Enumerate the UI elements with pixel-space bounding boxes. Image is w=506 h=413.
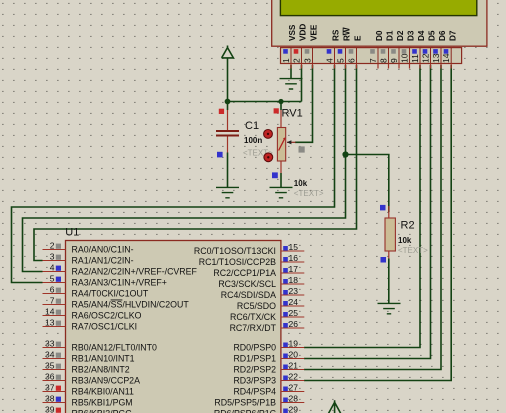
svg-text:5: 5 xyxy=(50,274,55,284)
svg-text:RD0/PSP0: RD0/PSP0 xyxy=(233,343,276,353)
capacitor C1 labels xyxy=(243,120,273,158)
wire RW net: node to R2 top xyxy=(346,155,389,213)
LCD pin state squares xyxy=(283,49,448,54)
svg-text:27: 27 xyxy=(289,383,299,393)
svg-text:RB2/AN8/INT2: RB2/AN8/INT2 xyxy=(72,365,130,375)
power symbol bottom (cut off) xyxy=(328,400,341,413)
potentiometer RV1 labels xyxy=(282,107,324,198)
wire RS net: LCD pin4 to U1 pin5 RA3 xyxy=(12,65,335,283)
svg-text:3: 3 xyxy=(50,252,55,262)
svg-text:5: 5 xyxy=(335,58,345,63)
svg-text:D0: D0 xyxy=(375,30,384,41)
svg-text:RB4/KBI0/AN11: RB4/KBI0/AN11 xyxy=(72,387,135,397)
svg-text:RA4/T0CKI/C1OUT: RA4/T0CKI/C1OUT xyxy=(72,289,149,299)
svg-text:RC6/TX/CK: RC6/TX/CK xyxy=(230,312,276,322)
wire D4 net: LCD pin11 to U1 pin19 RD0 xyxy=(304,65,420,348)
U1 right pin labels xyxy=(194,246,277,413)
U1 right pin numbers xyxy=(289,242,299,413)
svg-text:34: 34 xyxy=(45,350,55,360)
svg-text:D7: D7 xyxy=(448,30,457,41)
ground for R2 xyxy=(378,303,401,313)
svg-text:37: 37 xyxy=(45,383,55,393)
svg-text:RA7/OSC1/CLKI: RA7/OSC1/CLKI xyxy=(72,322,138,332)
svg-text:RA0/AN0/C1IN-: RA0/AN0/C1IN- xyxy=(72,245,134,255)
U1 left pin stubs RB group xyxy=(43,348,66,413)
svg-text:RS: RS xyxy=(332,29,341,41)
svg-text:38: 38 xyxy=(45,394,55,404)
U1 left pin state squares xyxy=(56,244,61,413)
wire RV1 bottom to ground xyxy=(280,161,282,188)
svg-text:E: E xyxy=(354,35,363,41)
svg-text:RA1/AN1/C2IN-: RA1/AN1/C2IN- xyxy=(72,256,134,266)
svg-text:VEE: VEE xyxy=(310,24,319,41)
svg-text:RC2/CCP1/P1A: RC2/CCP1/P1A xyxy=(213,268,276,278)
wire C1 top xyxy=(227,102,229,131)
svg-text:3: 3 xyxy=(302,58,312,63)
resistor R2 body xyxy=(385,218,395,251)
wire VDD rail from power to LCD pin2 xyxy=(228,58,302,102)
svg-text:RB5/KBI1/PGM: RB5/KBI1/PGM xyxy=(72,398,133,408)
ground for RV1 xyxy=(270,187,293,197)
LCD pin stubs xyxy=(291,64,451,69)
LCD pin numbers 1-14 xyxy=(281,53,451,63)
svg-text:RW: RW xyxy=(343,27,352,41)
svg-text:7: 7 xyxy=(368,58,378,63)
svg-text:RA5/AN4/SS/HLVDIN/C2OUT: RA5/AN4/SS/HLVDIN/C2OUT xyxy=(72,300,190,310)
svg-text:2: 2 xyxy=(291,58,301,63)
svg-text:RC0/T1OSO/T13CKI: RC0/T1OSO/T13CKI xyxy=(194,246,276,256)
svg-text:25: 25 xyxy=(289,308,299,318)
svg-text:C1: C1 xyxy=(245,120,259,132)
svg-text:RA3/AN3/C1IN+/VREF+: RA3/AN3/C1IN+/VREF+ xyxy=(72,278,167,288)
svg-text:100n: 100n xyxy=(244,136,262,145)
svg-text:D1: D1 xyxy=(386,30,395,41)
svg-text:29: 29 xyxy=(289,405,299,413)
svg-text:14: 14 xyxy=(441,53,451,63)
svg-text:17: 17 xyxy=(289,264,299,274)
wire D6 net: LCD pin13 to U1 pin21 RD2 xyxy=(304,65,441,370)
svg-text:D6: D6 xyxy=(438,30,447,41)
svg-text:4: 4 xyxy=(324,58,334,63)
svg-text:24: 24 xyxy=(289,297,299,307)
svg-text:D5: D5 xyxy=(428,30,437,41)
wire RW net: node to U1 pin4 RA2 xyxy=(23,155,346,272)
wire D7 net: LCD pin14 to U1 pin22 RD3 xyxy=(304,65,451,381)
wire RW net: LCD pin5 down to node xyxy=(345,65,347,155)
svg-text:11: 11 xyxy=(410,54,420,63)
LCD pin number band xyxy=(281,48,462,64)
svg-text:7: 7 xyxy=(50,296,55,306)
svg-text:RD6/PSP6/P1C: RD6/PSP6/P1C xyxy=(214,409,277,413)
svg-text:U1: U1 xyxy=(65,227,79,239)
svg-text:6: 6 xyxy=(346,58,356,63)
ground for LCD VSS xyxy=(280,79,303,89)
svg-text:15: 15 xyxy=(289,242,299,252)
svg-text:36: 36 xyxy=(45,372,55,382)
svg-text:16: 16 xyxy=(289,253,299,263)
svg-text:35: 35 xyxy=(45,361,55,371)
wire LCD pin1 VSS to ground xyxy=(290,65,292,79)
svg-text:RV1: RV1 xyxy=(282,107,303,119)
svg-text:RD2/PSP2: RD2/PSP2 xyxy=(233,365,276,375)
svg-text:RC7/RX/DT: RC7/RX/DT xyxy=(230,323,277,333)
U1 right pin stubs RC group xyxy=(281,251,304,328)
svg-text:2: 2 xyxy=(50,241,55,251)
ground for C1 xyxy=(216,187,239,197)
svg-text:RC1/T1OSI/CCP2B: RC1/T1OSI/CCP2B xyxy=(199,257,276,267)
svg-text:14: 14 xyxy=(45,307,55,317)
svg-text:RC3/SCK/SCL: RC3/SCK/SCL xyxy=(218,279,276,289)
svg-text:39: 39 xyxy=(45,405,55,413)
svg-text:12: 12 xyxy=(420,53,430,63)
svg-text:9: 9 xyxy=(389,58,399,63)
svg-text:RB0/AN12/FLT0/INT0: RB0/AN12/FLT0/INT0 xyxy=(72,343,157,353)
svg-text:26: 26 xyxy=(289,319,299,329)
wire RV1 top xyxy=(280,102,282,129)
svg-text:RA6/OSC2/CLKO: RA6/OSC2/CLKO xyxy=(72,311,142,321)
potentiometer RV1 terminal circles xyxy=(264,130,273,162)
svg-text:28: 28 xyxy=(289,394,299,404)
svg-text:RD1/PSP1: RD1/PSP1 xyxy=(233,354,276,364)
microcontroller U1 body xyxy=(66,241,281,413)
microcontroller U1 refdes xyxy=(65,227,79,239)
wire C1 bottom to ground xyxy=(227,136,229,188)
svg-text:RB6/KBI2/PGC: RB6/KBI2/PGC xyxy=(72,409,133,413)
svg-text:D3: D3 xyxy=(407,30,416,41)
svg-text:10k: 10k xyxy=(398,236,412,245)
svg-text:20: 20 xyxy=(289,350,299,360)
svg-text:10k: 10k xyxy=(294,179,308,188)
U1 left pin labels xyxy=(72,245,198,413)
svg-text:RB3/AN9/CCP2A: RB3/AN9/CCP2A xyxy=(72,376,141,386)
svg-text:18: 18 xyxy=(289,275,299,285)
svg-text:13: 13 xyxy=(431,53,441,63)
svg-text:RC4/SDI/SDA: RC4/SDI/SDA xyxy=(221,290,276,300)
svg-text:10: 10 xyxy=(399,53,409,63)
svg-text:VDD: VDD xyxy=(299,24,308,41)
svg-text:RA2/AN2/C2IN+/VREF-/CVREF: RA2/AN2/C2IN+/VREF-/CVREF xyxy=(72,267,198,277)
svg-text:22: 22 xyxy=(289,372,299,382)
svg-text:D4: D4 xyxy=(417,30,426,41)
svg-text:RD4/PSP4: RD4/PSP4 xyxy=(233,387,276,397)
capacitor C1 state squares xyxy=(217,109,224,158)
svg-text:RC5/SDO: RC5/SDO xyxy=(237,301,276,311)
resistor R2 labels xyxy=(398,219,428,255)
node junction VDD/RV1 xyxy=(278,99,283,104)
svg-text:19: 19 xyxy=(289,339,299,349)
U1 left pin stubs RA group xyxy=(43,250,66,327)
svg-text:<TEXT>: <TEXT> xyxy=(294,189,324,198)
U1 left pin numbers xyxy=(45,241,55,413)
wire R2 bottom to ground xyxy=(388,259,390,304)
node junction VDD/C1 xyxy=(225,99,231,105)
svg-text:RD3/PSP3: RD3/PSP3 xyxy=(233,376,276,386)
power symbol VDD top xyxy=(222,46,234,58)
svg-text:13: 13 xyxy=(45,318,55,328)
svg-text:<TEXT>: <TEXT> xyxy=(398,246,428,255)
svg-text:6: 6 xyxy=(50,285,55,295)
U1 right pin state squares xyxy=(283,246,288,413)
potentiometer RV1 state squares xyxy=(272,108,305,178)
wire E net: LCD pin6 to U1 pin3 RA1 xyxy=(34,65,357,261)
svg-text:1: 1 xyxy=(281,58,291,63)
resistor R2 state squares xyxy=(380,205,386,263)
svg-text:21: 21 xyxy=(289,361,299,371)
svg-text:RB1/AN10/INT1: RB1/AN10/INT1 xyxy=(72,354,135,364)
svg-text:RD5/PSP5/P1B: RD5/PSP5/P1B xyxy=(214,398,276,408)
svg-text:33: 33 xyxy=(45,339,55,349)
wire VEE LCD pin3 to RV1 wiper xyxy=(295,65,313,142)
svg-text:D2: D2 xyxy=(396,30,405,41)
potentiometer RV1 body xyxy=(277,128,295,162)
wire D5 net: LCD pin12 to U1 pin20 RD1 xyxy=(304,65,431,359)
svg-text:R2: R2 xyxy=(401,219,415,231)
svg-text:8: 8 xyxy=(378,58,388,63)
svg-text:4: 4 xyxy=(50,263,55,273)
resistor R2 pin stubs xyxy=(388,206,390,259)
LCD pin name labels VSS..D7 xyxy=(288,24,457,41)
U1 right pin stubs RD group xyxy=(281,348,304,413)
node junction RW/R2 xyxy=(342,151,348,157)
svg-text:23: 23 xyxy=(289,286,299,296)
svg-text:VSS: VSS xyxy=(288,24,297,41)
capacitor C1 plates xyxy=(216,131,239,136)
LCD display LCD1 body xyxy=(272,0,487,46)
